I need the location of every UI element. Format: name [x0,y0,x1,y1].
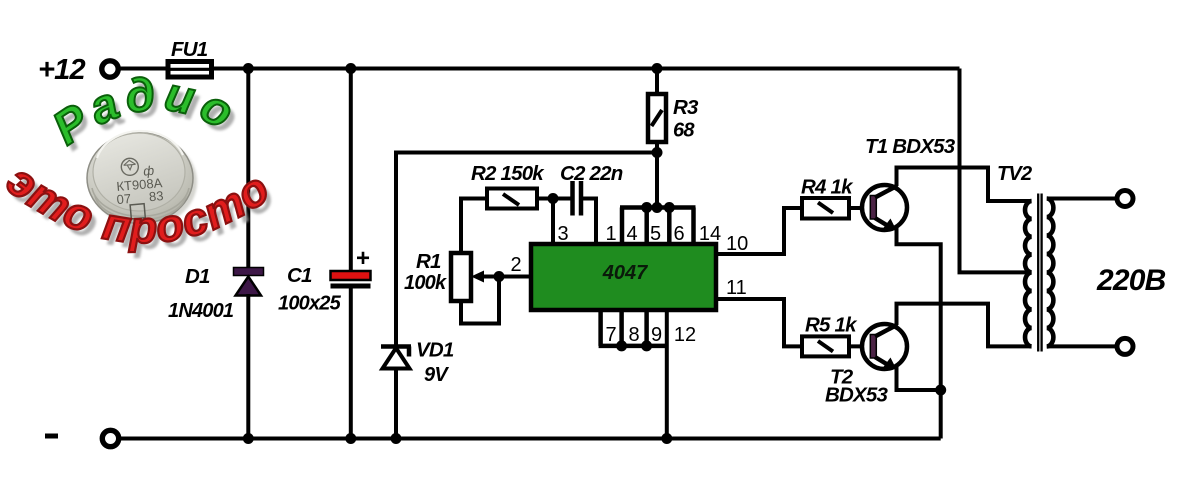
label pin 3 [557,223,568,245]
label 9V [424,364,449,386]
label 220V [1096,264,1166,297]
wire R3 to pin5 [655,153,659,209]
svg-text:1: 1 [605,223,616,245]
resistor R3 [648,94,666,142]
wire C2 to pin1 [583,199,596,245]
label R4 1k [801,176,854,199]
potentiometer R1 [451,253,471,301]
wire R3 upper [655,69,659,97]
wire secondary top [1047,197,1117,201]
resistor R4 [802,198,849,219]
label C1 [287,264,312,287]
svg-text:6: 6 [673,223,684,245]
node junction bottom rail D1 [243,433,254,444]
wire T1 collector [897,168,1032,202]
svg-text:TV2: TV2 [997,163,1032,185]
label T2 [830,366,854,389]
wire secondary bottom [1047,344,1117,348]
label C1 plus [356,245,370,272]
svg-text:R3: R3 [673,96,699,119]
transformer TV2 secondary winding [1047,199,1054,347]
terminal output bottom [1117,338,1133,354]
wire R5 to T2 base [849,344,867,348]
label minus [45,434,58,439]
svg-text:4047: 4047 [602,262,648,284]
svg-text:9V: 9V [424,364,449,386]
wire junction to C2 [553,197,571,201]
svg-text:220В: 220В [1096,264,1166,297]
wire C1 upper [349,69,353,273]
svg-text:+: + [356,245,370,272]
wire top rail [119,67,960,71]
node junction bottom rail C1 [345,433,356,444]
node junction top rail R3 [652,63,663,74]
wire pin 12 to bottom rail [665,310,669,439]
wire R3 lower [655,142,659,153]
op-amp U1 4047 IC body [531,244,716,310]
label 100k [404,272,447,294]
capacitor C2 [573,181,582,216]
svg-text:VD1: VD1 [416,339,454,362]
node junction pin bar 5 [652,202,663,213]
svg-text:8: 8 [628,324,639,346]
label 1N4001 [168,300,234,322]
wire emitters to bottom rail [939,390,943,439]
label R5 1k [805,314,858,337]
svg-text:4: 4 [626,223,637,245]
transformer TV2 core [1038,194,1041,352]
svg-text:3: 3 [557,223,568,245]
wire pin 10 [716,208,802,254]
node junction pin bar 9 [641,340,652,351]
label R1 [416,250,441,273]
top pin box pins 4 5 6 [620,208,696,245]
svg-text:R5 1k: R5 1k [805,314,858,337]
label pin 10 [726,233,748,255]
svg-text:R1: R1 [416,250,441,273]
transistor T1 [862,185,907,231]
svg-text:R2 150k: R2 150k [471,162,545,185]
label pin 4 [626,223,637,245]
svg-text:FU1: FU1 [171,38,208,61]
label pin 2 [510,254,521,276]
zener diode VD1 [381,347,411,369]
label pin 6 [673,223,684,245]
label 68 [673,120,695,142]
wire VD1 lower [394,368,398,439]
svg-text:11: 11 [726,277,747,299]
label pin 7 [605,324,616,346]
logo transistor photo [87,131,197,227]
label pin 12 [674,324,696,346]
wire R4 to T1 base [849,206,867,210]
wire T1 emitter [897,228,941,390]
svg-text:1N4001: 1N4001 [168,300,234,322]
svg-text:100x25: 100x25 [278,293,342,315]
node junction R2 C2 pin3 [548,193,559,204]
logo eto prosto text [0,154,284,258]
svg-text:T1 BDX53: T1 BDX53 [865,135,956,158]
logo Radio text [43,66,253,161]
label 100x25 [278,293,342,315]
label pin 5 [650,223,661,245]
node junction pin bar 6 [664,202,675,213]
diode D1 [234,268,264,296]
node junction pin bar 4 [641,202,652,213]
wire pin 11 [716,299,802,346]
wire R2 left [461,199,487,255]
wire T2 emitter [897,367,941,390]
label R3 [673,96,699,119]
wire pin2 [499,275,531,279]
node junction top rail D1 [243,63,254,74]
node junction emitters [935,385,946,396]
label VD1 [416,339,454,362]
label D1 [185,265,210,288]
capacitor C1 [331,271,371,289]
svg-text:10: 10 [726,233,748,255]
svg-text:R4 1k: R4 1k [801,176,854,199]
wire T2 collector [897,304,1032,347]
fuse FU1 [168,62,212,78]
svg-text:5: 5 [650,223,661,245]
wire R1 bottom elbow [461,277,499,324]
label BDX53 [825,384,888,407]
svg-text:100k: 100k [404,272,447,294]
bottom pin box pins 7 8 9 [599,310,667,346]
label pin 11 [726,277,747,299]
svg-text:2: 2 [510,254,521,276]
wire C1 lower [349,289,353,439]
label TV2 [997,163,1032,185]
resistor R2 [487,189,537,209]
node junction top rail C1 [345,63,356,74]
node junction pin bar 8 [616,340,627,351]
label pin 14 [699,223,721,245]
resistor R5 [802,336,849,356]
svg-text:D1: D1 [185,265,210,288]
wire D1 lower [246,294,250,439]
wire pin3 [551,199,555,245]
label R2 150k [471,162,545,185]
svg-text:9: 9 [651,324,662,346]
label FU1 [171,38,208,61]
terminal +12 [102,61,118,77]
label pin 9 [651,324,662,346]
svg-text:7: 7 [605,324,616,346]
label +12 [38,54,85,86]
svg-text:C2 22n: C2 22n [560,162,623,185]
svg-text:BDX53: BDX53 [825,384,888,407]
wire bottom rail [121,437,941,441]
terminal output top [1117,191,1133,207]
label pin 8 [628,324,639,346]
wiper arrow R1 [471,271,499,283]
wire D1 upper [246,69,250,270]
label T1 BDX53 [865,135,956,158]
svg-text:14: 14 [699,223,721,245]
label pin 1 [605,223,616,245]
svg-text:68: 68 [673,120,695,142]
node junction wiper [494,271,505,282]
wire R2 right [537,197,553,201]
wire center tap from top rail [960,69,1032,273]
transformer TV2 primary winding [1025,201,1032,346]
wire VD1 upper [394,151,398,348]
svg-text:+12: +12 [38,54,85,86]
svg-text:12: 12 [674,324,696,346]
label C2 22n [560,162,623,185]
transistor T2 [862,324,907,370]
node junction R3 VD1 [652,147,663,158]
node junction bottom rail VD1 [391,433,402,444]
wire VD1 to R3 horizontal [396,151,657,155]
node junction bottom rail pin12 [661,433,672,444]
terminal minus [102,430,118,446]
svg-text:C1: C1 [287,264,312,287]
